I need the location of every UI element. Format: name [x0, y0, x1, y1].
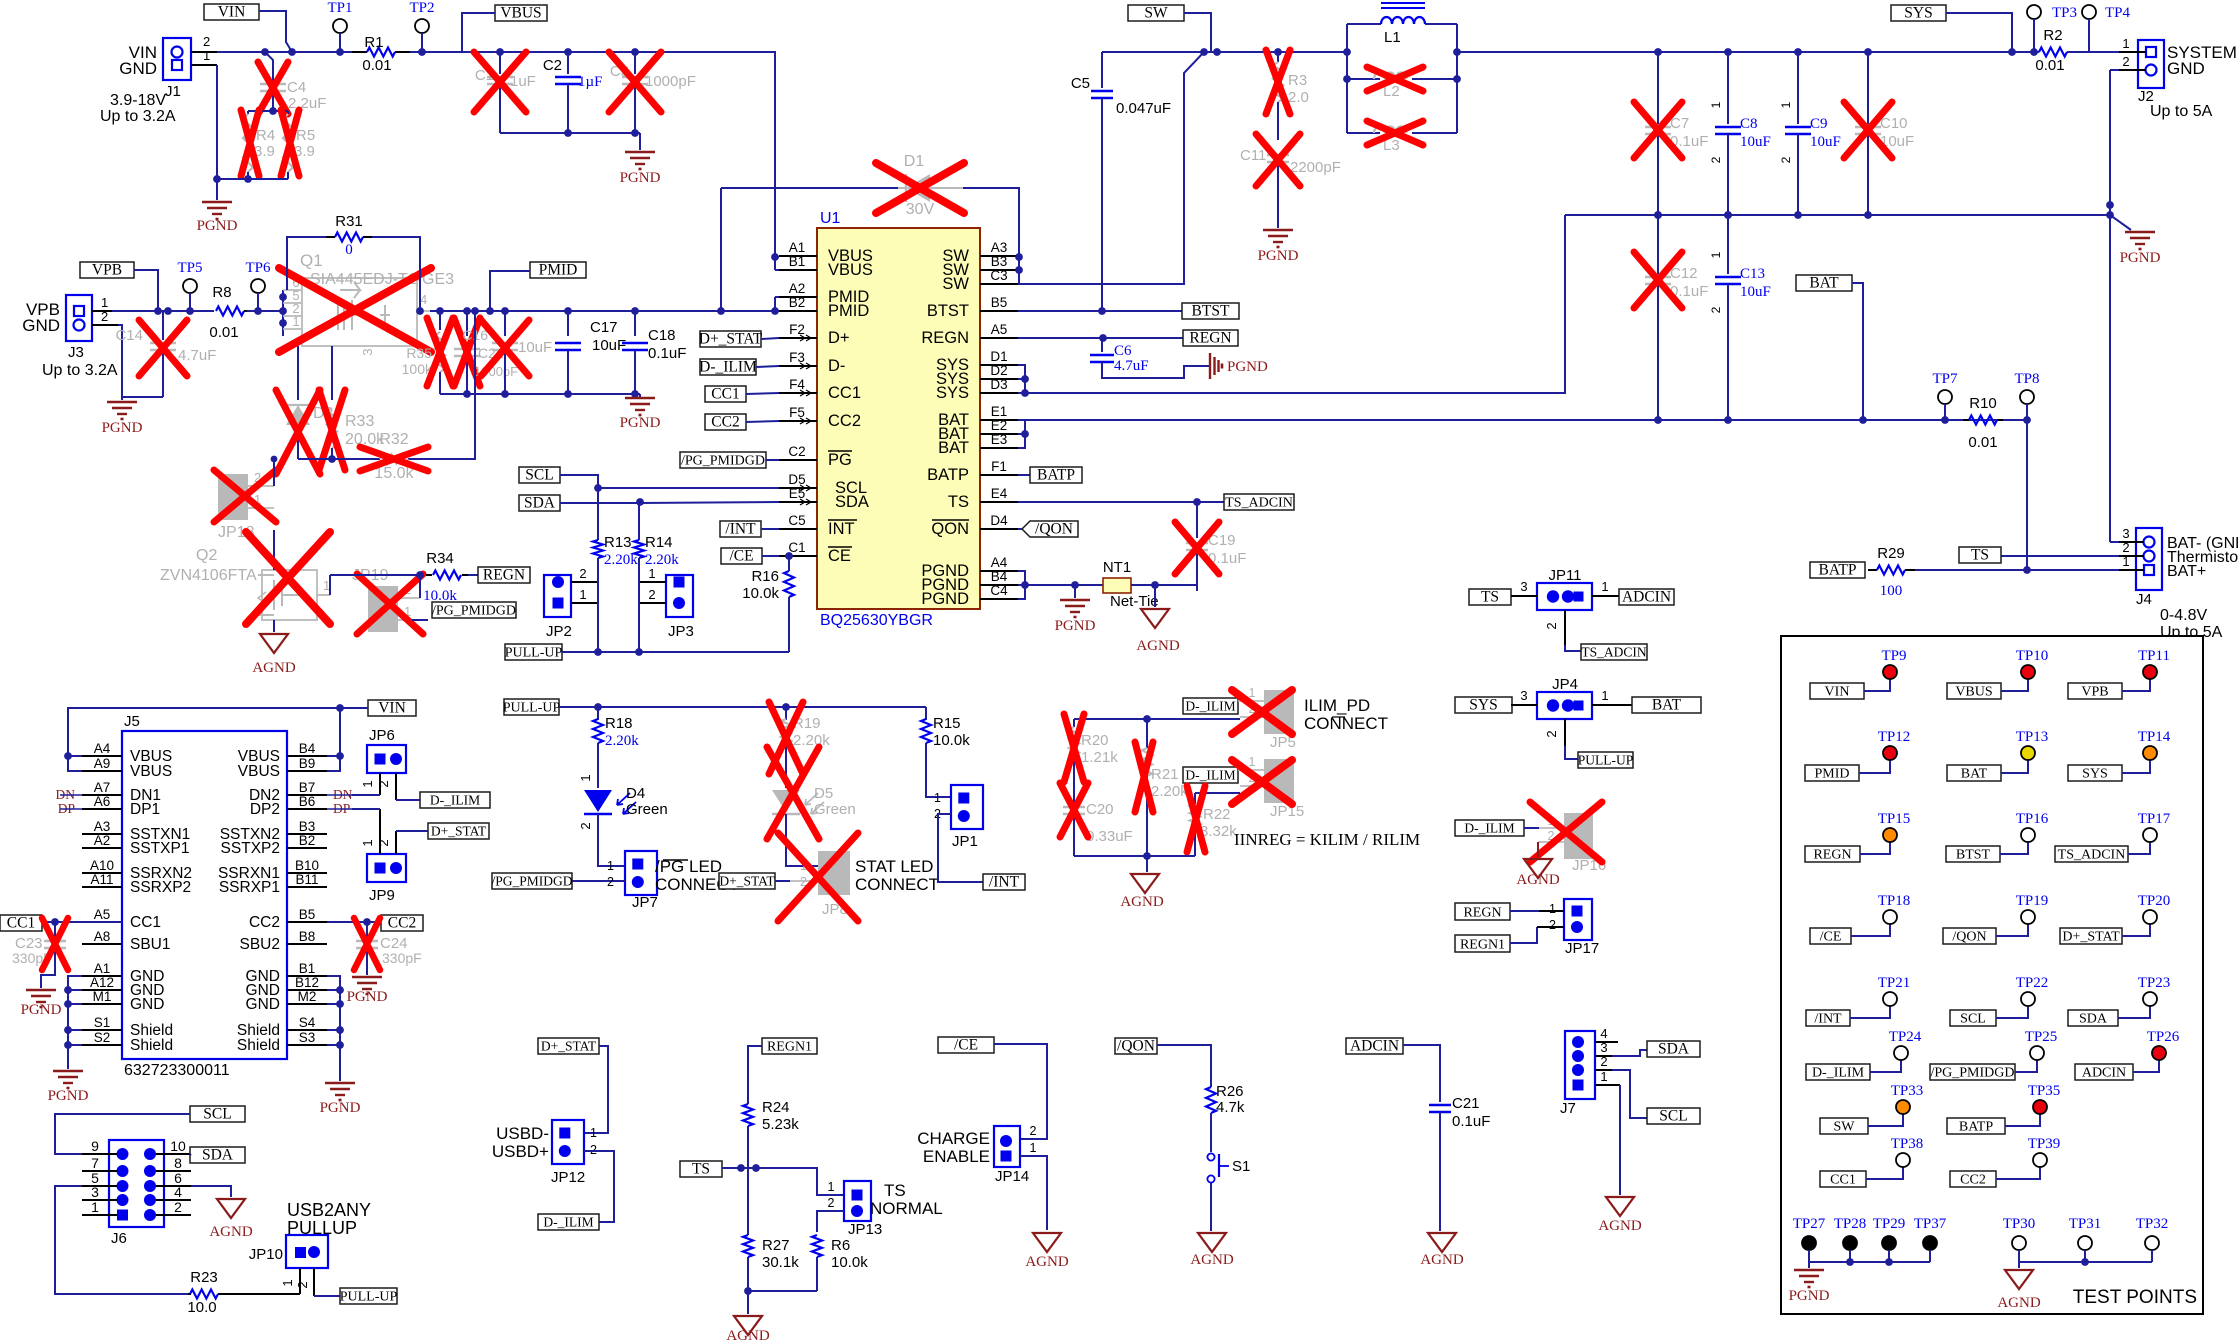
- svg-text:D+_STAT: D+_STAT: [699, 331, 763, 348]
- svg-text:J4: J4: [2136, 591, 2152, 608]
- svg-text:CC2: CC2: [249, 914, 280, 931]
- svg-text:GND: GND: [130, 996, 164, 1013]
- svg-text:F2: F2: [789, 322, 805, 337]
- svg-text:2: 2: [579, 566, 586, 581]
- svg-text:TP19: TP19: [2016, 893, 2049, 909]
- svg-text:VPB: VPB: [92, 262, 122, 279]
- svg-text:BTST: BTST: [1956, 848, 1991, 863]
- svg-text:ADCIN: ADCIN: [1350, 1038, 1399, 1055]
- svg-text:C13: C13: [1740, 266, 1765, 282]
- svg-text:1: 1: [1549, 902, 1556, 916]
- svg-text:SSTXP2: SSTXP2: [221, 840, 280, 857]
- svg-text:10.0k: 10.0k: [933, 732, 970, 749]
- svg-text:A1: A1: [94, 961, 111, 976]
- svg-text:10.0k: 10.0k: [742, 585, 779, 602]
- svg-text:TP35: TP35: [2028, 1083, 2061, 1099]
- svg-text:TP3: TP3: [2052, 5, 2077, 21]
- svg-text:9: 9: [91, 1138, 99, 1154]
- svg-text:2.0: 2.0: [1288, 89, 1309, 106]
- svg-text:TS: TS: [948, 493, 969, 511]
- svg-text:B3: B3: [299, 819, 316, 834]
- svg-text:TS: TS: [884, 1181, 906, 1200]
- svg-text:100: 100: [1880, 583, 1903, 599]
- svg-text:REGN: REGN: [1813, 848, 1851, 863]
- svg-text:PGND: PGND: [21, 1002, 62, 1018]
- svg-text:10uF: 10uF: [518, 339, 552, 356]
- svg-text:C4: C4: [990, 583, 1008, 598]
- svg-text:D4: D4: [626, 785, 645, 802]
- svg-text:VIN: VIN: [378, 700, 406, 717]
- svg-text:E3: E3: [991, 432, 1008, 447]
- svg-text:TP24: TP24: [1889, 1029, 1922, 1045]
- svg-text:SCL: SCL: [1960, 1012, 1986, 1027]
- svg-text:C5: C5: [788, 513, 805, 528]
- svg-text:A12: A12: [90, 975, 114, 990]
- svg-text:E5: E5: [789, 486, 806, 501]
- svg-text:TP26: TP26: [2147, 1029, 2180, 1045]
- svg-text:BAT: BAT: [1809, 275, 1839, 292]
- svg-text:1: 1: [91, 1199, 99, 1215]
- svg-text:SDA: SDA: [835, 493, 869, 511]
- svg-text:R1: R1: [364, 34, 383, 51]
- svg-text:A6: A6: [94, 794, 111, 809]
- svg-text:1: 1: [934, 791, 941, 805]
- svg-text:B2: B2: [789, 295, 806, 310]
- svg-text:A9: A9: [94, 756, 111, 771]
- svg-text:B12: B12: [295, 975, 319, 990]
- svg-text:TP20: TP20: [2138, 893, 2171, 909]
- svg-text:TS: TS: [692, 1161, 710, 1178]
- svg-text:3: 3: [1520, 688, 1527, 703]
- svg-text:VIN: VIN: [1825, 685, 1850, 700]
- svg-text:/QON: /QON: [1035, 521, 1073, 538]
- svg-text:BTST: BTST: [1192, 303, 1230, 320]
- svg-text:2: 2: [1600, 1054, 1607, 1069]
- svg-text:JP13: JP13: [848, 1221, 882, 1238]
- svg-text:CE: CE: [828, 547, 851, 565]
- svg-text:0-4.8V: 0-4.8V: [2160, 607, 2207, 624]
- svg-text:SBU1: SBU1: [130, 936, 171, 953]
- svg-text:R31: R31: [335, 213, 363, 230]
- svg-text:CONNECT: CONNECT: [855, 875, 939, 894]
- svg-text:CC1: CC1: [828, 384, 861, 402]
- svg-text:/INT: /INT: [989, 874, 1020, 891]
- svg-text:F4: F4: [789, 377, 805, 392]
- svg-text:632723300011: 632723300011: [124, 1062, 230, 1079]
- svg-text:REGN: REGN: [921, 329, 969, 347]
- svg-text:TP9: TP9: [1881, 648, 1906, 664]
- svg-text:2.20k: 2.20k: [604, 552, 638, 568]
- svg-text:B5: B5: [299, 907, 316, 922]
- svg-text:TP30: TP30: [2003, 1216, 2036, 1232]
- svg-text:3.9-18V: 3.9-18V: [110, 92, 166, 109]
- svg-text:CONNECT: CONNECT: [1304, 714, 1388, 733]
- svg-text:4.7uF: 4.7uF: [1114, 358, 1149, 374]
- svg-text:JP15: JP15: [1270, 803, 1304, 820]
- svg-text:C2: C2: [543, 57, 562, 74]
- svg-text:VIN: VIN: [218, 4, 246, 21]
- svg-text:TEST POINTS: TEST POINTS: [2073, 1287, 2197, 1308]
- svg-text:CC1: CC1: [1830, 1173, 1856, 1188]
- svg-text:PGND: PGND: [347, 989, 388, 1005]
- svg-text:R10: R10: [1969, 395, 1997, 412]
- svg-text:PGND: PGND: [102, 420, 143, 436]
- svg-text:/INT: /INT: [1814, 1012, 1842, 1027]
- svg-text:TP5: TP5: [177, 260, 202, 276]
- svg-text:R33: R33: [345, 413, 374, 430]
- svg-text:NT1: NT1: [1103, 559, 1131, 576]
- svg-text:2: 2: [1544, 622, 1559, 629]
- svg-text:2: 2: [1030, 1124, 1037, 1138]
- svg-text:PGND: PGND: [2120, 250, 2161, 266]
- svg-text:2: 2: [1779, 156, 1793, 163]
- svg-text:7: 7: [91, 1155, 99, 1171]
- svg-text:3: 3: [360, 348, 375, 355]
- svg-text:TP1: TP1: [327, 0, 352, 16]
- svg-text:1: 1: [2122, 36, 2129, 51]
- svg-text:1: 1: [1709, 101, 1723, 108]
- svg-text:1: 1: [1249, 686, 1256, 700]
- svg-text:10uF: 10uF: [1740, 284, 1771, 300]
- svg-text:GND: GND: [246, 996, 280, 1013]
- svg-text:D2: D2: [990, 363, 1007, 378]
- svg-text:BAT: BAT: [1961, 767, 1988, 782]
- svg-text:D-_ILIM: D-_ILIM: [1812, 1066, 1865, 1081]
- svg-text:REGN: REGN: [1463, 906, 1501, 921]
- svg-text:B11: B11: [295, 872, 318, 887]
- svg-text:3.32k: 3.32k: [1200, 823, 1237, 840]
- svg-text:A4: A4: [991, 555, 1008, 570]
- svg-text:B5: B5: [991, 295, 1008, 310]
- svg-text:TP12: TP12: [1878, 729, 1911, 745]
- svg-text:1: 1: [1779, 101, 1793, 108]
- svg-text:D+_STAT: D+_STAT: [719, 874, 775, 889]
- svg-text:GND: GND: [2167, 59, 2205, 78]
- svg-text:SYS: SYS: [2082, 767, 2108, 782]
- svg-text:JP17: JP17: [1565, 940, 1599, 957]
- svg-text:TP15: TP15: [1878, 811, 1911, 827]
- svg-text:Green: Green: [814, 801, 856, 818]
- svg-text:S4: S4: [299, 1015, 316, 1030]
- svg-text:D-_ILIM: D-_ILIM: [543, 1215, 593, 1230]
- svg-text:PULLUP: PULLUP: [287, 1218, 357, 1238]
- svg-text:BAT+: BAT+: [2167, 563, 2206, 580]
- svg-text:C5: C5: [1071, 75, 1090, 92]
- svg-text:PGND: PGND: [197, 218, 238, 234]
- svg-text:SYS: SYS: [1469, 697, 1497, 714]
- svg-text:2: 2: [2122, 540, 2129, 555]
- svg-text:D+: D+: [828, 329, 850, 347]
- svg-text:TS_ADCIN: TS_ADCIN: [1581, 645, 1647, 660]
- svg-text:D+_STAT: D+_STAT: [2062, 930, 2120, 945]
- svg-text:2: 2: [101, 309, 108, 324]
- svg-text:AGND: AGND: [1997, 1295, 2040, 1311]
- svg-text:1: 1: [101, 295, 108, 310]
- svg-text:ENABLE: ENABLE: [923, 1147, 990, 1166]
- svg-text:R4: R4: [256, 127, 275, 144]
- svg-text:Shield: Shield: [237, 1037, 280, 1054]
- svg-text:B8: B8: [299, 929, 316, 944]
- svg-text:4: 4: [174, 1184, 182, 1200]
- svg-text:1: 1: [607, 859, 614, 873]
- svg-text:2.20k: 2.20k: [793, 732, 830, 749]
- svg-text:10: 10: [170, 1138, 186, 1154]
- svg-text:R3: R3: [1288, 72, 1307, 89]
- svg-text:1: 1: [1601, 579, 1608, 594]
- svg-text:TP14: TP14: [2138, 729, 2171, 745]
- svg-text:D-_ILIM: D-_ILIM: [1464, 821, 1514, 836]
- svg-text:PULL-UP: PULL-UP: [505, 646, 563, 661]
- svg-text:CC1: CC1: [711, 386, 739, 403]
- svg-text:BATP: BATP: [1037, 467, 1075, 484]
- svg-text:C3: C3: [990, 268, 1007, 283]
- svg-text:SW: SW: [1144, 5, 1168, 22]
- svg-text:PULL-UP: PULL-UP: [340, 1290, 398, 1305]
- svg-text:JP12: JP12: [551, 1169, 585, 1186]
- svg-text:CC1: CC1: [7, 915, 35, 932]
- svg-text:2200pF: 2200pF: [1290, 159, 1341, 176]
- svg-text:SYS: SYS: [936, 384, 969, 402]
- svg-text:B4: B4: [991, 569, 1008, 584]
- svg-text:8: 8: [174, 1155, 182, 1171]
- svg-text:2.2uF: 2.2uF: [288, 95, 326, 112]
- svg-text:2: 2: [203, 34, 210, 49]
- svg-text:1uF: 1uF: [510, 73, 536, 90]
- svg-text:D-_ILIM: D-_ILIM: [1185, 699, 1235, 714]
- svg-text:2: 2: [2122, 54, 2129, 69]
- svg-text:BATP: BATP: [1959, 1120, 1993, 1135]
- svg-text:Up to 3.2A: Up to 3.2A: [100, 108, 176, 125]
- svg-text:SSTXP1: SSTXP1: [130, 840, 189, 857]
- svg-text:10uF: 10uF: [1810, 134, 1841, 150]
- svg-text:B3: B3: [991, 254, 1008, 269]
- svg-text:1: 1: [1601, 688, 1608, 703]
- svg-text:D-: D-: [828, 357, 845, 375]
- svg-text:JP6: JP6: [369, 727, 395, 744]
- svg-text:2: 2: [174, 1199, 182, 1215]
- svg-text:/PG_PMIDGD: /PG_PMIDGD: [1930, 1066, 2014, 1081]
- svg-text:1: 1: [828, 1180, 835, 1194]
- svg-text:2: 2: [376, 839, 391, 846]
- svg-text:2: 2: [1709, 306, 1723, 313]
- svg-text:A8: A8: [94, 929, 111, 944]
- svg-text:/PG_PMIDGD: /PG_PMIDGD: [432, 604, 516, 619]
- svg-text:Green: Green: [626, 801, 668, 818]
- svg-text:CC2: CC2: [388, 915, 416, 932]
- svg-text:4.7uF: 4.7uF: [178, 347, 216, 364]
- svg-text:D1: D1: [904, 153, 925, 170]
- svg-text:1: 1: [579, 587, 586, 602]
- svg-text:TP25: TP25: [2025, 1029, 2058, 1045]
- svg-text:A4: A4: [94, 741, 111, 756]
- svg-text:B7: B7: [299, 780, 316, 795]
- svg-text:2: 2: [828, 1196, 835, 1210]
- svg-text:CHARGE: CHARGE: [917, 1129, 990, 1148]
- svg-text:IINREG = KILIM / RILIM: IINREG = KILIM / RILIM: [1234, 830, 1420, 849]
- svg-text:1: 1: [1600, 1069, 1607, 1084]
- svg-text:R5: R5: [296, 127, 315, 144]
- svg-text:VBUS: VBUS: [130, 763, 172, 780]
- svg-text:AGND: AGND: [1598, 1218, 1641, 1234]
- svg-text:2: 2: [376, 780, 391, 787]
- svg-text:AGND: AGND: [209, 1224, 252, 1240]
- svg-text:R27: R27: [762, 1237, 790, 1254]
- svg-text:R29: R29: [1877, 545, 1905, 562]
- svg-text:B10: B10: [295, 858, 319, 873]
- svg-text:A2: A2: [789, 281, 806, 296]
- svg-text:B1: B1: [299, 961, 316, 976]
- svg-text:VBUS: VBUS: [238, 763, 280, 780]
- svg-text:PMID: PMID: [539, 262, 578, 279]
- svg-text:R34: R34: [426, 550, 454, 567]
- svg-text:USBD+: USBD+: [492, 1142, 549, 1161]
- svg-text:Up to 5A: Up to 5A: [2150, 103, 2213, 120]
- svg-text:0.01: 0.01: [2035, 57, 2064, 74]
- svg-text:DP1: DP1: [130, 801, 160, 818]
- svg-text:TP17: TP17: [2138, 811, 2171, 827]
- svg-text:TP31: TP31: [2069, 1216, 2102, 1232]
- svg-text:D4: D4: [990, 513, 1008, 528]
- svg-text:VPB: VPB: [2081, 685, 2108, 700]
- svg-text:D-_ILIM: D-_ILIM: [699, 359, 757, 376]
- svg-text:TP23: TP23: [2138, 975, 2171, 991]
- svg-text:PGND: PGND: [320, 1100, 361, 1116]
- svg-text:TP39: TP39: [2028, 1136, 2061, 1152]
- svg-text:SCL: SCL: [525, 467, 553, 484]
- svg-text:TP2: TP2: [409, 0, 434, 16]
- svg-text:1: 1: [280, 1279, 295, 1286]
- svg-text:D5: D5: [788, 472, 805, 487]
- svg-text:R22: R22: [1203, 806, 1231, 823]
- svg-text:L1: L1: [1384, 29, 1401, 46]
- svg-text:JP1: JP1: [952, 833, 978, 850]
- svg-text:TP10: TP10: [2016, 648, 2049, 664]
- svg-text:A3: A3: [991, 240, 1008, 255]
- svg-text:PULL-UP: PULL-UP: [1578, 753, 1634, 768]
- svg-text:SDA: SDA: [1658, 1041, 1690, 1058]
- svg-text:PGND: PGND: [921, 590, 969, 608]
- svg-text:USB2ANY: USB2ANY: [287, 1200, 371, 1220]
- svg-text:0.33uF: 0.33uF: [1086, 828, 1133, 845]
- svg-text:D-_ILIM: D-_ILIM: [1185, 768, 1235, 783]
- svg-text:AGND: AGND: [1120, 894, 1163, 910]
- svg-text:C9: C9: [1810, 116, 1828, 132]
- svg-text:2: 2: [1709, 156, 1723, 163]
- svg-text:3: 3: [91, 1184, 99, 1200]
- svg-text:R18: R18: [605, 715, 633, 732]
- svg-text:/QON: /QON: [1117, 1038, 1155, 1055]
- svg-text:2.20k: 2.20k: [1151, 783, 1188, 800]
- svg-text:0.1uF: 0.1uF: [648, 345, 686, 362]
- svg-text:1µF: 1µF: [578, 74, 603, 90]
- svg-text:4: 4: [420, 292, 427, 307]
- svg-text:SCL: SCL: [1659, 1108, 1687, 1125]
- svg-text:TP7: TP7: [1932, 371, 1958, 387]
- svg-text:R26: R26: [1216, 1083, 1244, 1100]
- svg-text:S2: S2: [94, 1030, 111, 1045]
- svg-text:TS: TS: [1481, 589, 1499, 606]
- svg-text:1: 1: [1249, 755, 1256, 769]
- svg-text:R8: R8: [212, 284, 231, 301]
- svg-text:REGN1: REGN1: [767, 1040, 812, 1055]
- svg-text:TP32: TP32: [2136, 1216, 2169, 1232]
- svg-text:1: 1: [292, 314, 299, 329]
- svg-text:AGND: AGND: [1190, 1252, 1233, 1268]
- svg-text:1: 1: [360, 780, 375, 787]
- svg-text:2: 2: [1544, 730, 1559, 737]
- svg-text:TP29: TP29: [1873, 1216, 1906, 1232]
- svg-text:4: 4: [1600, 1026, 1607, 1041]
- svg-text:Up to 3.2A: Up to 3.2A: [42, 362, 118, 379]
- svg-text:1: 1: [648, 566, 655, 581]
- svg-text:5.23k: 5.23k: [762, 1116, 799, 1133]
- svg-text:R14: R14: [645, 534, 673, 551]
- svg-text:SDA: SDA: [202, 1147, 234, 1164]
- svg-text:JP3: JP3: [668, 623, 694, 640]
- svg-text:J6: J6: [111, 1230, 127, 1247]
- svg-text:PGND: PGND: [620, 170, 661, 186]
- svg-text:Q1: Q1: [300, 251, 323, 270]
- svg-text:SYS: SYS: [1904, 5, 1932, 22]
- svg-text:330pF: 330pF: [382, 950, 422, 966]
- svg-text:A5: A5: [991, 322, 1008, 337]
- svg-text:2.20k: 2.20k: [605, 733, 639, 749]
- svg-text:F5: F5: [789, 405, 805, 420]
- svg-text:1: 1: [590, 1126, 597, 1140]
- svg-text:BAT: BAT: [938, 439, 969, 457]
- svg-text:PG: PG: [828, 451, 852, 469]
- svg-text:TP27: TP27: [1793, 1216, 1826, 1232]
- svg-text:/QON: /QON: [1952, 930, 1986, 945]
- svg-text:BATP: BATP: [927, 466, 969, 484]
- svg-text:C8: C8: [1740, 116, 1758, 132]
- svg-text:/CE: /CE: [954, 1037, 978, 1054]
- svg-text:SSRXP2: SSRXP2: [130, 879, 191, 896]
- svg-text:R6: R6: [831, 1237, 850, 1254]
- svg-text:TP37: TP37: [1914, 1216, 1947, 1232]
- svg-text:3: 3: [2122, 526, 2129, 541]
- svg-text:R24: R24: [762, 1099, 790, 1116]
- svg-text:ADCIN: ADCIN: [1622, 589, 1671, 606]
- svg-text:1: 1: [203, 48, 210, 63]
- svg-text:B2: B2: [299, 833, 316, 848]
- svg-text:E4: E4: [991, 486, 1008, 501]
- svg-text:BATP: BATP: [1819, 562, 1857, 579]
- svg-text:PGND: PGND: [48, 1088, 89, 1104]
- svg-text:E2: E2: [991, 418, 1008, 433]
- svg-text:1: 1: [2122, 554, 2129, 569]
- svg-text:F1: F1: [991, 459, 1007, 474]
- svg-text:PGND: PGND: [1055, 618, 1096, 634]
- svg-text:SSRXP1: SSRXP1: [219, 879, 280, 896]
- svg-text:B9: B9: [299, 756, 316, 771]
- svg-text:SIA445EDJ-T1-GE3: SIA445EDJ-T1-GE3: [310, 271, 454, 288]
- svg-text:TS_ADCIN: TS_ADCIN: [1225, 496, 1293, 511]
- svg-text:C6: C6: [1114, 343, 1132, 359]
- svg-text:S3: S3: [299, 1030, 316, 1045]
- svg-text:JP9: JP9: [369, 887, 395, 904]
- svg-text:1: 1: [1709, 251, 1723, 258]
- svg-text:AGND: AGND: [1025, 1254, 1068, 1270]
- svg-text:TP33: TP33: [1891, 1083, 1924, 1099]
- svg-text:SW: SW: [1834, 1120, 1856, 1135]
- svg-text:ZVN4106FTA: ZVN4106FTA: [160, 567, 257, 584]
- svg-text:CC2: CC2: [828, 412, 861, 430]
- svg-text:TP13: TP13: [2016, 729, 2049, 745]
- svg-text:ILIM_PD: ILIM_PD: [1304, 696, 1370, 715]
- svg-text:GND: GND: [22, 316, 60, 335]
- svg-text:S1: S1: [1232, 1158, 1250, 1175]
